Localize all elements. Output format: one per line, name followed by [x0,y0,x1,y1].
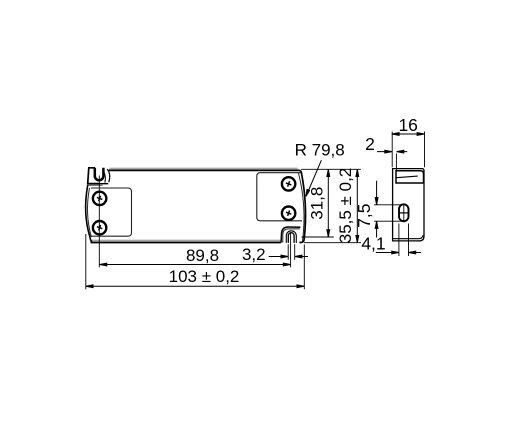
radius leader line [306,160,321,196]
dim 7,5 extension lines [374,205,402,221]
corner boss outer [281,227,300,243]
svg-text:3,2: 3,2 [242,245,266,264]
svg-text:4,1: 4,1 [361,233,385,253]
svg-text:16: 16 [398,115,417,135]
clamp screw axis line [403,205,405,221]
lid rectangle right [257,173,302,221]
extension line 31.8 bottom [302,236,334,238]
housing top edge thin upper line [110,167,298,169]
wire hole tube outer [286,231,296,243]
dim 35,5 line [356,169,359,242]
dim 89,8 line [100,263,291,266]
housing left edge outer arc [86,185,92,242]
dim 4,1 extension lines [399,224,409,257]
extension line 35.5 bottom [304,242,361,244]
dim 31,8 line [327,169,330,237]
screw S3 [282,177,295,190]
dim 2 extension line [395,154,397,171]
mounting tab bottom line [88,183,108,185]
lid rectangle left [91,188,132,236]
dim 103 line [86,285,304,288]
wire hole centerline [290,233,292,267]
dim 3,2 arrows [269,255,308,258]
housing top edge [109,169,299,171]
housing bottom edge thin upper line [91,239,281,241]
housing left edge inner arc [87,188,91,237]
clamp screw oval [399,204,409,221]
mounting tab bottom second line [88,184,102,186]
dim 16 line [392,133,424,136]
housing right edge outer arc R79.8 [298,170,305,242]
dim 103 extension line right [303,245,305,290]
clamp screw slot [399,212,408,214]
svg-text:31,8: 31,8 [308,187,327,220]
corner boss inner line [283,229,300,243]
mounting tab outline top-left [88,168,100,184]
side bottom upper line [393,235,424,239]
dim 2 arrows [377,150,407,153]
side body outline [393,169,424,241]
side flange rect [396,171,424,183]
dim 7,5 arrows [375,181,378,238]
svg-text:2: 2 [365,134,375,154]
svg-text:35,5 ± 0,2: 35,5 ± 0,2 [336,168,355,244]
dim 4,1 arrows [376,251,421,254]
tab corner fillet arc [107,169,109,182]
extension line top right [301,168,361,170]
housing bottom edge [91,241,281,243]
screw centerline left [98,176,100,268]
wire hole tube inner [288,233,294,243]
svg-text:89,8: 89,8 [186,246,219,265]
svg-text:R 79,8: R 79,8 [295,141,345,160]
screw S2 [93,221,106,234]
svg-text:103 ± 0,2: 103 ± 0,2 [169,267,240,286]
housing right edge inner arc [298,172,304,241]
dim 16 extension lines [392,132,424,168]
dim 103 extension line left [85,234,87,289]
screw S4 [282,207,295,220]
dim 3,2 extension lines [288,244,295,259]
side flange slot line [396,176,418,178]
U slot keyhole [95,168,104,180]
tab corner inner arc [104,172,106,183]
screw S1 [93,192,106,205]
svg-text:7,5: 7,5 [354,204,374,228]
